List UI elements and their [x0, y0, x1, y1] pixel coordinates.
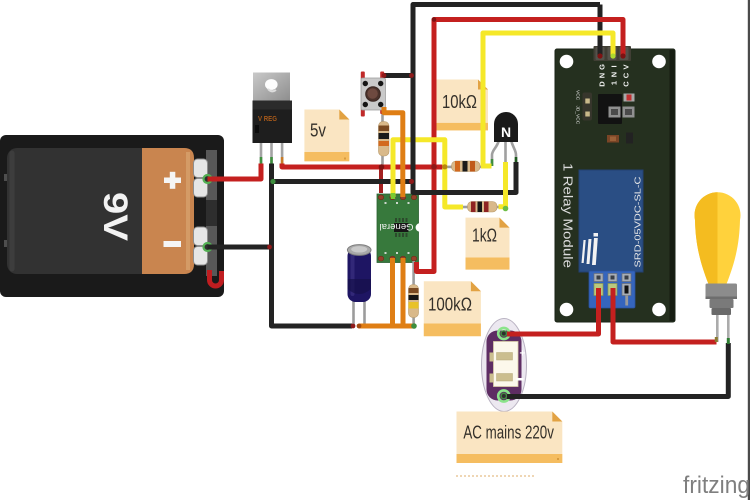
node relay IN1 pin wire tip [610, 53, 615, 58]
resistor R3 1k horizontal [462, 202, 503, 213]
battery BT1 9V with holder [0, 135, 224, 297]
node junction R1 lead and 5V rail [379, 164, 385, 170]
sticky note 100k [424, 281, 481, 336]
wire black battery minus [208, 245, 271, 250]
wire orange IC pin3 bottom drop [401, 258, 406, 326]
node bulb right leg wire tip [727, 338, 730, 344]
svg-text:100kΩ: 100kΩ [428, 294, 472, 315]
svg-text:1 Relay Module: 1 Relay Module [561, 163, 575, 268]
wire red relay NO to bulb [613, 288, 717, 342]
node junction orange bus and R4 lead [411, 323, 417, 329]
resistor R4 100k (vertical) [409, 261, 419, 327]
wire orange bottom bus to 100k [359, 324, 415, 329]
svg-text:1: 1 [610, 81, 619, 85]
svg-text:9V: 9V [96, 192, 134, 241]
svg-text:1kΩ: 1kΩ [472, 225, 497, 246]
svg-text:+: + [520, 349, 526, 360]
node junction GND branch end [409, 179, 414, 184]
svg-text:N: N [610, 72, 619, 77]
IC board "General" (timer module) [377, 194, 424, 263]
sticky note 10k [435, 80, 489, 131]
svg-text:V REG: V REG [258, 114, 277, 123]
node junction GND trunk and branch [270, 179, 275, 184]
voltage regulator U2 V-REG (TO-220) [253, 73, 293, 165]
node bulb left leg wire tip [715, 337, 718, 342]
AC plug P1 [482, 319, 527, 412]
svg-text:G: G [598, 64, 607, 70]
svg-text:C: C [622, 72, 631, 78]
pin labels [598, 64, 631, 87]
wire orange button to IC pin3 [384, 107, 403, 197]
svg-text:fritzing: fritzing [683, 472, 750, 499]
sticky note 5v [304, 110, 349, 162]
optocoupler IC [598, 94, 622, 124]
dotted note edge [456, 475, 535, 477]
node relay VCC pin wire tip [620, 53, 625, 58]
resistor R1 10k (vertical, below button) [379, 107, 390, 168]
svg-text:V: V [622, 64, 631, 69]
screw terminal [589, 271, 635, 308]
wire red VCC to relay [417, 20, 624, 272]
sticky note 1k [466, 218, 510, 270]
wire red 5V rail from regulator output [282, 164, 445, 168]
svg-text:JD_VCC: JD_VCC [575, 106, 581, 125]
node junction button wire and GND trunk [409, 73, 414, 78]
relay SRD-05VDC-SL-C [579, 170, 643, 272]
svg-text:VCC: VCC [575, 90, 581, 101]
light bulb LBL1 [694, 192, 740, 344]
wire black relay GND drop [598, 5, 603, 58]
svg-text:AC mains 220v: AC mains 220v [463, 423, 554, 443]
node relay GND pin wire tip [597, 53, 602, 58]
svg-text:5v: 5v [310, 120, 327, 141]
wire red battery plus to regulator input [208, 164, 262, 180]
node junction base wire and R3 lead [503, 206, 509, 212]
svg-text:N: N [501, 124, 511, 140]
relay module board U3 [555, 46, 675, 322]
wire yellow IC pin2 to 1k resistor [393, 140, 463, 207]
svg-text:General: General [380, 222, 414, 232]
node junction VCC drop and 5V rail [431, 164, 437, 170]
svg-text:D: D [598, 81, 607, 87]
svg-text:C: C [622, 81, 631, 87]
wire yellow relay IN1 signal [483, 33, 613, 166]
transistor Q1 NPN [492, 112, 518, 166]
wire black button to GND line [384, 73, 412, 78]
node VCC wire top bend [432, 17, 437, 22]
wire yellow junction to transistor left leg [481, 164, 492, 169]
red wire loop at battery case bottom-right [210, 270, 222, 286]
wire orange IC pin2 bottom drop [390, 258, 395, 326]
svg-text:N: N [598, 73, 607, 78]
node junction yellow wire and 5V rail [442, 164, 447, 169]
wire black bulb return to plug [507, 343, 728, 397]
mounting holes [560, 55, 574, 69]
SMD parts [624, 94, 635, 102]
resistor R2 10k horizontal (base feed) [445, 161, 486, 172]
header pins VCC IN1 GND [594, 46, 632, 61]
node battery minus wire end cap [267, 245, 272, 250]
wire black main GND loop top [413, 5, 600, 193]
svg-text:10kΩ: 10kΩ [442, 91, 477, 112]
songle logo [582, 233, 599, 265]
node button pin to GND-wire end cap left [382, 73, 387, 78]
sticky note AC mains 220v [457, 412, 563, 464]
node capacitor positive lead joint [357, 324, 362, 329]
window edge line right [748, 0, 750, 500]
capacitor C1 electrolytic [347, 245, 371, 326]
node capacitor negative lead joint [351, 324, 356, 329]
jumper JD-VCC [583, 93, 593, 121]
svg-text:SRD-05VDC-SL-C: SRD-05VDC-SL-C [633, 177, 643, 268]
wire black GND branch horizontal [272, 179, 412, 184]
wire red stub 5V to IC board pin1 [379, 168, 383, 193]
svg-text:I: I [610, 65, 619, 67]
wire black regulator GND down and to capacitor [272, 164, 353, 327]
push button S1 [361, 72, 386, 117]
wire yellow transistor base to 1k [499, 162, 506, 207]
node IC board pin2 wire tip [391, 193, 395, 199]
wire red relay COM to plug [507, 288, 599, 334]
